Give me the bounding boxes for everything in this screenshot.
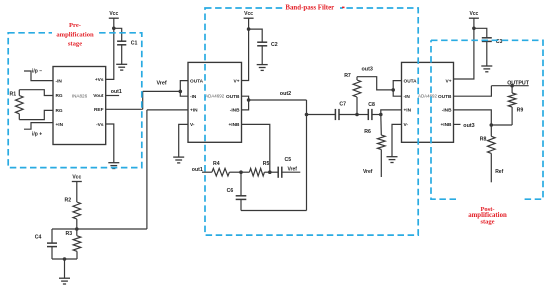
node R5/+INB junction [268,170,272,174]
wire -IN jog [180,91,188,96]
wire Vref horizontal [143,90,181,92]
wire out1 to R4 [202,171,212,173]
svg-text:-INB: -INB [442,108,452,114]
wire -IN jog of U3 [393,90,401,96]
wire OUTA jog of U3 [393,81,401,90]
wire OUTPUT [491,85,528,87]
node Vcc/C2 junction [247,27,251,31]
ground (under U2) [173,156,184,158]
wire out3 (OUTA of U3 to R7) [357,77,393,90]
svg-text:V-: V- [190,122,195,128]
svg-text:OUTA: OUTA [190,78,204,84]
svg-text:Ref: Ref [495,169,503,175]
wire out2 vertical (C6 feedback) [306,100,308,211]
title Pre-amplification stage [52,19,98,47]
ground (under U3) [387,156,398,158]
svg-text:REF: REF [94,107,104,113]
wire divider horizontal [77,228,147,230]
svg-text:R7: R7 [344,73,351,79]
wire Vref vertical [142,91,144,109]
title Band-pass Filter [284,1,340,12]
wire +IN of U2 to divider [147,109,188,111]
in-amp U1 INA826 [53,67,106,145]
svg-text:-INB: -INB [230,108,240,114]
svg-text:-Vs: -Vs [96,122,104,128]
wire -Vs to ground [106,124,114,163]
node out2/C7 junction [305,113,309,117]
svg-text:out1: out1 [111,89,122,95]
resistor R1 [18,90,20,96]
svg-text:+IN: +IN [56,122,64,128]
svg-text:C8: C8 [368,102,375,108]
capacitor C7 [307,114,336,116]
svg-text:out1: out1 [192,167,203,173]
svg-text:out3: out3 [362,67,373,73]
svg-text:C2: C2 [271,42,278,48]
capacitor C2 [249,29,263,42]
wire V+ of U3 to Vcc [454,18,474,79]
wire out2 [249,99,307,101]
op-amp U3 ADA4692 [402,62,454,142]
resistor R9 [511,86,513,93]
band-pass filter dashed box [205,8,418,235]
svg-text:OUTB: OUTB [438,94,452,100]
wire OUTA feedback jog [180,81,188,92]
svg-text:stage: stage [68,41,82,48]
resistor R3 [76,229,78,236]
node OUTA feedback junction [391,88,395,92]
svg-text:out2: out2 [280,91,291,97]
svg-text:Vout: Vout [93,93,104,99]
wire +INB of U2 down [242,124,270,172]
wire divider vertical [146,110,148,229]
post-amplification stage dashed box [431,40,543,199]
op-amp U2 ADA4692 [188,62,242,142]
node R2/R3 junction [75,227,79,231]
node out2 junction [247,98,251,102]
wire OUTB feedback jog [242,96,249,110]
svg-text:-IN: -IN [190,94,197,100]
pre-amplification stage dashed box [8,33,142,168]
svg-text:+Vs: +Vs [95,77,104,83]
svg-text:OUTB: OUTB [226,94,240,100]
node ground junction [63,257,67,261]
wire RG upper [19,90,53,96]
svg-text:-IN: -IN [404,94,411,100]
svg-text:V+: V+ [234,78,240,84]
wire +IN jog of U3 [381,110,402,115]
svg-text:Vcc: Vcc [244,11,253,17]
svg-text:Vcc: Vcc [72,175,81,181]
svg-text:ADA4692: ADA4692 [205,94,225,99]
capacitor C1 [114,28,122,41]
svg-text:R8: R8 [480,136,487,142]
power Vcc (band-pass) [244,17,254,19]
node C8/R6/+IN junction [379,113,383,117]
svg-text:V-: V- [404,122,409,128]
capacitor C3 [474,28,487,38]
svg-text:C4: C4 [35,235,42,241]
resistor R5 [241,171,249,173]
wire REF to Vref node [106,108,143,110]
svg-text:Vref: Vref [363,169,373,175]
svg-text:+INB: +INB [229,122,241,128]
resistor R7 [356,97,358,115]
svg-text:RG: RG [56,93,63,99]
node R8/R9 junction [490,123,494,127]
resistor R8 [490,125,492,136]
svg-text:R4: R4 [213,161,220,167]
capacitor C8 [357,114,368,116]
node R7/C8 junction [355,113,359,117]
wire RG lower [19,110,53,119]
svg-text:Vcc: Vcc [109,11,118,17]
power Vcc (post-amp) [469,17,479,19]
svg-text:amplification: amplification [56,31,94,38]
input stub i/p- [24,71,53,81]
svg-text:+INB: +INB [441,122,453,128]
svg-text:out3: out3 [463,123,474,129]
svg-text:R2: R2 [65,197,72,203]
wire V- of U2 to ground [179,124,188,157]
ground (under C3) [481,65,492,67]
wire -INB of U3 to R8/R9 node [454,110,513,125]
svg-text:OUTA: OUTA [404,78,418,84]
capacitor C5 [270,171,278,173]
power Vcc (pre-amp) [109,17,119,19]
node OUTPUT/R9 junction [510,84,514,88]
svg-text:-IN: -IN [56,78,63,84]
svg-text:Vref: Vref [288,167,298,173]
svg-text:R9: R9 [517,108,524,114]
svg-text:C1: C1 [131,40,138,46]
wire V+ of U2 to Vcc [242,18,249,80]
svg-text:R6: R6 [364,129,371,135]
ground (divider) [64,259,66,278]
ground (under INA826) [108,162,119,164]
wire C6 bottom return [241,210,307,212]
svg-text:+IN: +IN [190,108,198,114]
svg-text:V+: V+ [446,78,452,84]
svg-text:stage: stage [480,219,494,226]
svg-text:Vref: Vref [157,81,167,87]
resistor R2 [73,202,81,219]
node Vcc/C1 junction [112,27,116,31]
svg-text:R1: R1 [10,91,17,97]
wire +INB stub of U3 (out3) [454,123,461,125]
svg-text:RG: RG [56,108,63,114]
resistor R6 [380,115,383,136]
svg-text:i/p +: i/p + [32,132,42,138]
ground (under C2) [257,64,268,66]
wire V- of U3 to ground [392,124,402,156]
wire OUTB of U3 to OUTPUT [454,86,492,97]
node R4/C6/R5 junction [239,170,243,174]
svg-text:R3: R3 [66,231,73,237]
svg-text:C7: C7 [339,101,346,107]
svg-text:+IN: +IN [404,108,412,114]
svg-text:ADA4692: ADA4692 [418,94,438,99]
wire out1 stub (Vout) [106,95,119,97]
node Vcc/C3 junction [472,27,476,31]
input stub i/p+ [24,123,53,130]
capacitor C4 [52,228,77,230]
svg-text:C5: C5 [285,157,292,163]
svg-text:i/p –: i/p – [32,69,42,75]
capacitor C6 [240,172,242,196]
power Vcc (divider) [72,181,82,183]
wire +Vs to Vcc [106,18,114,79]
svg-text:Vcc: Vcc [469,11,478,17]
resistor R4 [212,168,230,176]
svg-text:C6: C6 [227,188,234,194]
svg-text:R5: R5 [263,161,270,167]
ground (under C1) [116,63,127,65]
node Vref/OUTA junction [179,90,183,94]
red dash after title [342,6,345,8]
svg-text:Band-pass Filter: Band-pass Filter [285,4,334,11]
svg-text:Pre-: Pre- [69,22,81,29]
svg-text:INA826: INA826 [72,93,88,98]
